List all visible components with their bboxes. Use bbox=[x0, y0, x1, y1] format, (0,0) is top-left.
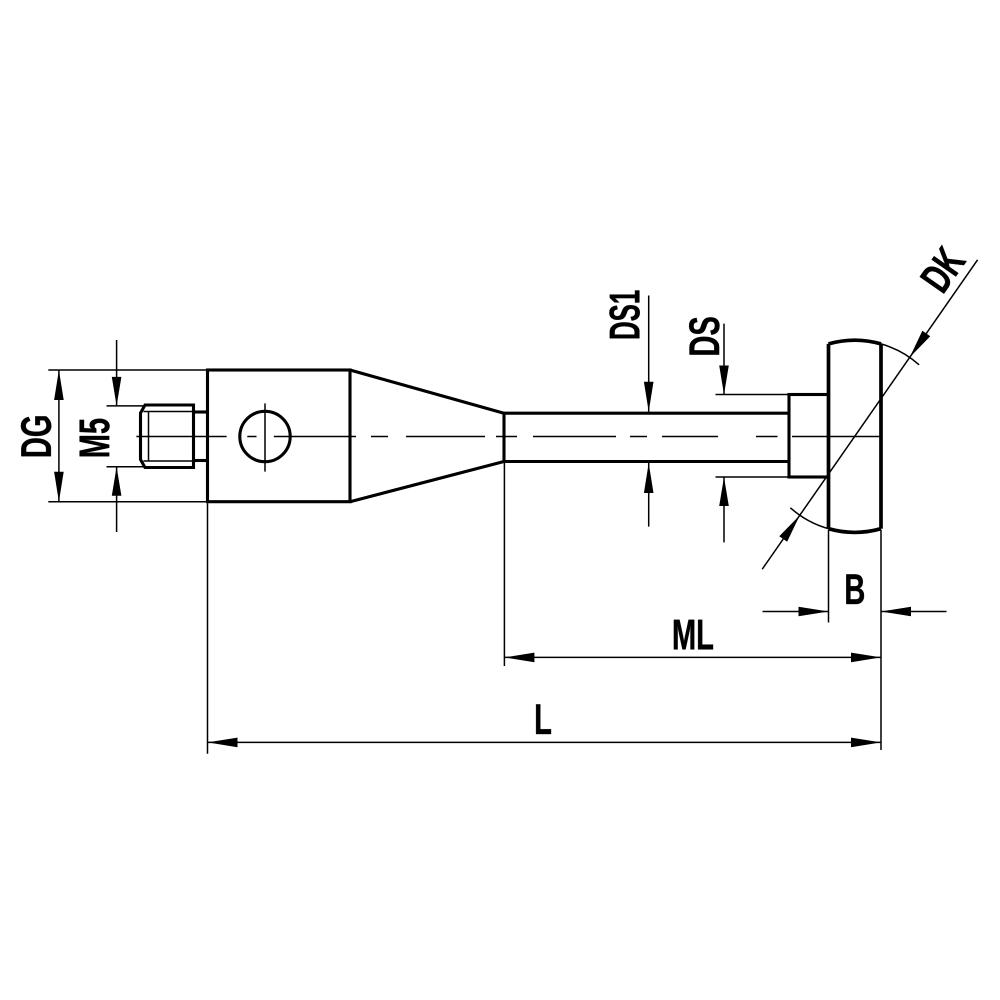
M5 arrow down bbox=[112, 377, 122, 406]
centerline bbox=[136, 436, 881, 438]
thread M5 stud outline bbox=[141, 405, 194, 468]
B label bbox=[846, 574, 864, 604]
ML extension line left bbox=[503, 463, 505, 666]
B dimension line right bbox=[881, 611, 947, 613]
ML arrow left bbox=[504, 653, 534, 663]
dimension L bbox=[208, 503, 882, 754]
B extension line right bbox=[880, 530, 882, 750]
DS arrow down bbox=[719, 366, 729, 395]
DS extension line top bbox=[716, 394, 790, 396]
DG label bbox=[21, 416, 51, 456]
DS extension line bottom bbox=[716, 476, 790, 478]
M5 extension line top bbox=[107, 405, 146, 407]
B extension line left bbox=[828, 530, 830, 623]
M5 arrow up bbox=[112, 467, 122, 496]
M5 dimension line lower bbox=[116, 467, 118, 532]
DS1 label bbox=[609, 291, 639, 339]
thread minor diameter line top bbox=[144, 411, 194, 413]
L extension line left bbox=[207, 503, 209, 754]
cross hole vertical crosshair bbox=[264, 403, 266, 471]
dimension DG bbox=[48, 370, 207, 502]
dimension DS bbox=[716, 324, 790, 543]
DS label bbox=[689, 317, 719, 354]
M5 extension line bottom bbox=[107, 466, 146, 468]
DS dimension line lower bbox=[723, 477, 725, 542]
DS1 dimension line upper bbox=[648, 296, 650, 412]
dimension M5 bbox=[107, 340, 146, 532]
disk left edge bbox=[827, 344, 831, 529]
DS dimension line upper bbox=[723, 324, 725, 395]
L arrow left bbox=[208, 738, 238, 748]
taper cone bottom edge bbox=[350, 462, 504, 502]
DG dimension line bbox=[58, 370, 60, 502]
taper cone top edge bbox=[350, 370, 504, 413]
L label bbox=[536, 704, 551, 734]
disk top rim arc bbox=[829, 340, 882, 344]
thread minor diameter line bottom bbox=[144, 460, 194, 462]
DS1 arrow up bbox=[644, 463, 654, 493]
DK arrow lower bbox=[779, 515, 800, 542]
stem top edge bbox=[504, 412, 789, 415]
M5 label bbox=[80, 419, 110, 457]
M5 dimension line upper bbox=[116, 340, 118, 406]
DK arrow upper bbox=[910, 331, 931, 358]
DS1 arrow down bbox=[644, 382, 654, 412]
disk bottom rim arc bbox=[829, 529, 882, 533]
DK dimension line bbox=[762, 260, 977, 569]
thread chamfer edge bbox=[148, 412, 150, 462]
stem bottom edge bbox=[504, 460, 789, 463]
DS1 dimension line lower bbox=[648, 463, 650, 527]
cone end face bbox=[502, 413, 505, 461]
disk rim arc extension top right bbox=[881, 344, 919, 365]
cross hole bbox=[240, 411, 290, 461]
B arrow left bbox=[881, 607, 911, 617]
DK label bbox=[920, 244, 967, 293]
DS arrow up bbox=[719, 477, 729, 506]
dimension B bbox=[763, 530, 947, 750]
thread relief neck bottom bbox=[194, 459, 208, 462]
probe body block bbox=[208, 370, 351, 502]
disk right edge bbox=[879, 344, 883, 529]
disk rim arc extension bottom left bbox=[790, 508, 828, 529]
thread relief neck top bbox=[194, 410, 208, 413]
hub bbox=[789, 395, 829, 478]
DG extension line top bbox=[48, 369, 207, 371]
B arrow right bbox=[799, 607, 829, 617]
DG arrow up bbox=[54, 370, 64, 400]
L arrow right bbox=[851, 738, 881, 748]
ML label bbox=[674, 620, 713, 650]
dimension ML bbox=[504, 463, 881, 666]
DG extension line bottom bbox=[48, 501, 207, 503]
dimension DK bbox=[762, 260, 977, 569]
ML arrow right bbox=[851, 653, 881, 663]
L dimension line bbox=[208, 741, 882, 743]
ML dimension line bbox=[504, 656, 881, 658]
B dimension line left bbox=[763, 611, 829, 613]
DG arrow down bbox=[54, 472, 64, 502]
dimension DS1 bbox=[644, 296, 654, 527]
